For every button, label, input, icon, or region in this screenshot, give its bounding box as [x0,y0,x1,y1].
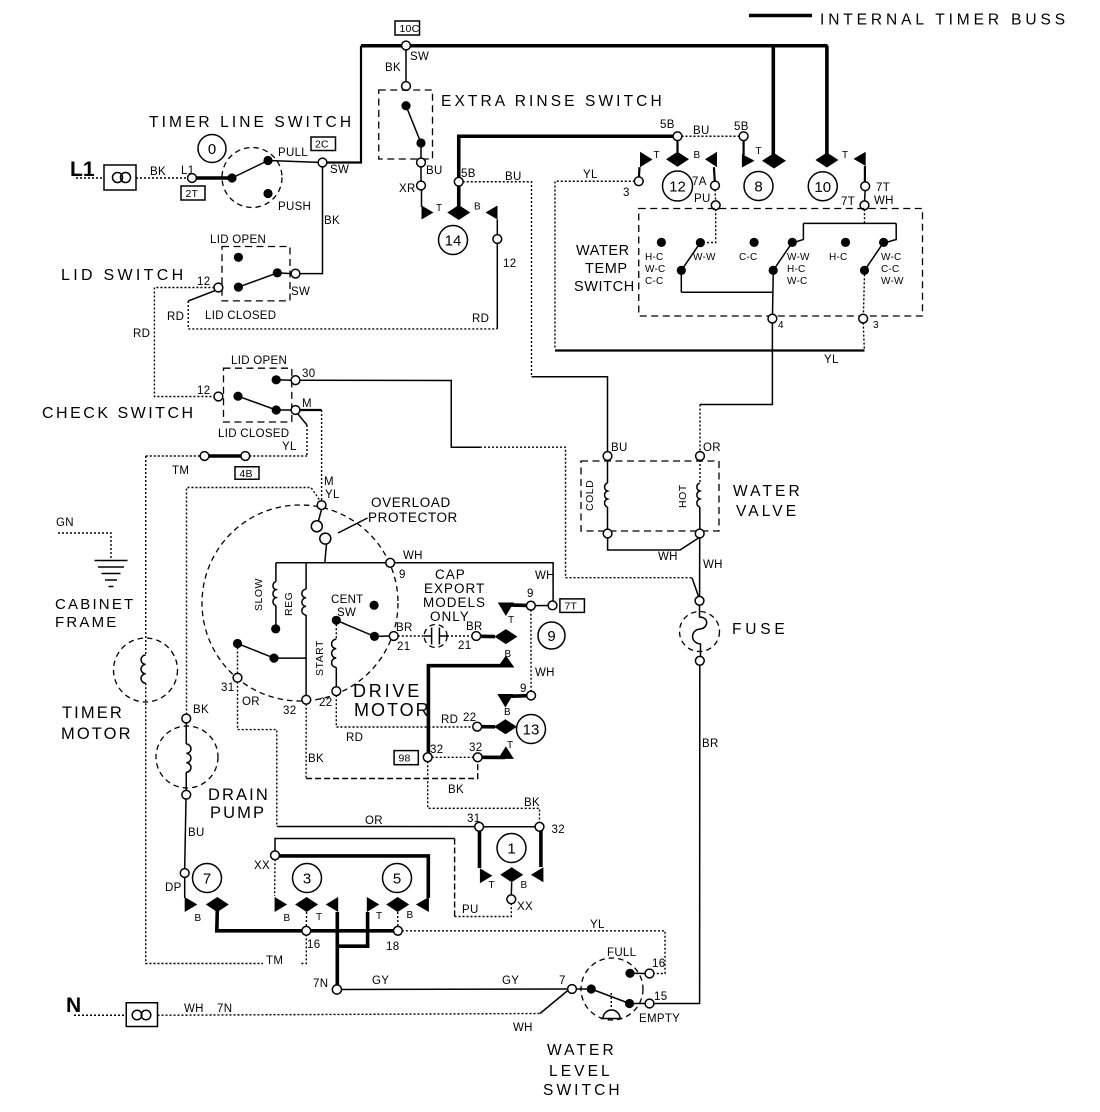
svg-text:C-C: C-C [881,264,899,275]
water valve dashed box [581,461,719,531]
svg-text:WH: WH [658,551,678,563]
svg-text:MOTOR: MOTOR [61,725,133,743]
svg-text:XX: XX [517,901,533,913]
svg-text:LID OPEN: LID OPEN [210,234,266,246]
svg-text:PUSH: PUSH [278,201,311,213]
contact 13 diamond [494,719,517,734]
node 30 [291,376,300,385]
svg-text:30: 30 [302,368,315,380]
svg-text:W-W: W-W [881,276,904,287]
svg-text:DRAIN: DRAIN [208,786,270,804]
timer motor dashed circle [114,638,178,702]
svg-text:TIMER: TIMER [62,704,124,722]
svg-text:3: 3 [873,320,879,331]
node 21 right [472,632,481,641]
svg-text:7T: 7T [876,182,890,194]
svg-text:OR: OR [703,442,721,454]
contact 1 T feed [478,831,482,868]
svg-text:4: 4 [778,320,784,331]
svg-text:T: T [508,615,514,626]
node: extra rinse input [402,82,411,91]
supply connector box L1 [104,165,136,190]
cent switch [370,601,379,610]
link 32 nodes [432,756,474,758]
circled 13 [517,715,546,744]
wire OR from node 4 to water valve hot [700,323,772,405]
circled 10 [808,172,837,201]
node 32 motor [302,695,311,704]
circled 8 [744,172,773,201]
node 15 [645,999,654,1008]
wire XX thick run to contact 5 B [279,856,428,898]
PULL contact [263,156,272,165]
node M [291,406,300,415]
wire [420,167,422,182]
node 5B left [673,132,682,141]
svg-text:7T: 7T [565,601,578,613]
svg-text:EXTRA RINSE SWITCH: EXTRA RINSE SWITCH [441,93,665,110]
contact 7 diamond [206,897,229,912]
contact 8 T triangle [742,154,755,168]
drive motor dashed circle [202,505,398,701]
wire WH bus to 7T [394,563,553,602]
svg-text:W-C: W-C [787,276,807,287]
svg-text:XR: XR [399,183,416,195]
wire RD lid to check switch [154,288,214,397]
svg-text:T: T [842,150,848,161]
terminal box 98 [394,751,418,765]
link node 9 to 7T [535,605,549,607]
contact 3 T drop to 7N [335,912,339,987]
svg-text:WATER: WATER [576,243,630,259]
overload protector pointer [338,518,368,533]
overload protector [319,509,322,521]
circled 9 [538,622,565,649]
contact 1 B triangle [531,867,544,882]
node XX right [507,895,516,904]
node 31 motor [233,673,242,682]
contact 9 T triangle [498,603,514,617]
contact 1 T triangle [480,868,493,883]
svg-text:12: 12 [669,179,686,196]
contact 1 diamond [500,867,523,882]
svg-text:BK: BK [193,704,209,716]
svg-text:GN: GN [56,517,74,529]
water level blade to empty [591,989,629,1004]
node drain pump bottom [182,790,191,799]
terminal box 2C [311,137,336,151]
water level switch dashed circle [581,958,643,1020]
contact 13 feed from 22 [481,725,495,729]
wire 30 to fuse area [300,380,481,447]
svg-text:CHECK SWITCH: CHECK SWITCH [42,405,196,422]
svg-text:SW: SW [330,164,349,176]
wire BU drain pump to DP [185,799,186,869]
node 9 motor [386,558,395,567]
svg-text:T: T [316,912,322,923]
svg-text:RD: RD [472,313,489,325]
wire node 3 to YL run [863,323,864,349]
svg-text:32: 32 [430,744,443,756]
wire PU XX run [455,903,512,916]
wire WH contact 9 down [530,610,532,692]
svg-text:16: 16 [652,958,665,970]
terminal box 2T [181,186,205,200]
svg-text:10C: 10C [400,23,420,35]
svg-text:WH: WH [535,667,555,679]
svg-text:3: 3 [303,871,311,888]
node SW lid switch [291,269,300,278]
svg-text:BK: BK [524,797,540,809]
svg-text:21: 21 [458,640,471,652]
svg-text:WH: WH [403,550,423,562]
svg-text:WH: WH [703,559,723,571]
svg-text:SW: SW [337,607,356,619]
svg-text:BK: BK [308,753,324,765]
svg-text:SWITCH: SWITCH [574,279,635,295]
svg-text:7: 7 [559,975,566,987]
svg-text:VALVE: VALVE [736,503,799,520]
svg-text:FUSE: FUSE [732,621,789,638]
node 22 motor [332,687,341,696]
svg-text:ONLY: ONLY [430,609,470,624]
svg-text:B: B [474,202,481,213]
wire contact 1 to XX [510,882,512,895]
svg-text:22: 22 [319,697,332,709]
timer motor coil [141,655,146,683]
contact 12 B triangle [705,152,717,167]
svg-text:BK: BK [448,784,464,796]
PUSH contact [263,189,272,198]
terminal box 4B [235,467,259,480]
svg-text:WH: WH [513,1022,533,1034]
contact 5 T drop [366,912,370,946]
node BU [417,158,426,167]
svg-text:SLOW: SLOW [253,578,265,611]
svg-text:RD: RD [346,732,363,744]
fuse element [693,605,707,657]
wire: SW riser from timer line switch to buss [323,46,362,163]
contact 9 B triangle [497,656,514,668]
node 7A [711,181,720,190]
wire WH hot to fuse [699,538,701,597]
svg-text:T: T [436,203,442,214]
svg-text:21: 21 [397,641,410,653]
wire blade 3 to node 3 [863,274,864,314]
svg-text:COLD: COLD [584,480,596,511]
supply connector box N [126,1003,157,1027]
contact 12 T triangle [640,152,653,167]
svg-text:0: 0 [208,141,216,158]
node 7 [568,985,577,994]
node 5B right [739,132,748,141]
svg-text:31: 31 [221,682,234,694]
svg-text:16: 16 [307,939,320,951]
svg-text:DP: DP [165,882,182,894]
node 32 [423,753,432,762]
wire: 5B dotted link [682,135,740,137]
wire start pivot to node 31 [237,648,239,674]
svg-text:2C: 2C [315,139,329,151]
wire: buss drop to timer contact 8 [771,46,775,155]
svg-text:RD: RD [167,311,184,323]
cold solenoid [607,460,609,483]
svg-text:BU: BU [505,171,522,183]
svg-text:10: 10 [814,179,831,196]
fuse dashed circle [680,612,720,652]
node 9 contact [527,601,536,610]
svg-text:WATER: WATER [547,1042,617,1059]
svg-text:OR: OR [242,696,260,708]
label TM bottom [263,953,300,967]
circled 0 [198,135,226,163]
svg-text:B: B [521,880,528,891]
check switch open contact [272,375,281,384]
wire WH diagonal to node 7 [540,990,569,1014]
svg-text:PROTECTOR: PROTECTOR [368,510,458,525]
svg-text:18: 18 [386,941,399,953]
timer line switch blade [232,161,268,179]
svg-text:12: 12 [503,258,516,270]
svg-text:2T: 2T [186,188,199,200]
lid switch open contact [234,253,243,262]
node 18 [394,926,403,935]
timer contact 14 B triangle [486,206,498,220]
timer contact 14 T triangle [422,206,434,220]
node OR water valve [696,452,705,461]
svg-text:HOT: HOT [677,484,689,508]
svg-text:BR: BR [466,621,483,633]
svg-text:5B: 5B [461,168,476,180]
contact 10 diamond [815,153,838,168]
drain pump coil [185,723,187,745]
contact 5 B triangle [416,897,429,912]
svg-text:OVERLOAD: OVERLOAD [371,495,451,510]
timer contact 14 feed from buss [459,136,676,216]
svg-text:GY: GY [372,975,389,987]
svg-text:TEMP: TEMP [585,261,628,277]
wire L1 lead [76,177,104,179]
water level common contact [576,988,587,990]
svg-text:OR: OR [365,815,383,827]
water temp blade 3 [865,242,884,270]
svg-text:32: 32 [283,705,296,717]
circled 1 [497,834,526,863]
svg-text:XX: XX [254,860,270,872]
svg-text:12: 12 [197,276,210,288]
circled 5 [383,864,412,893]
contact 7 thick feed to 16-18 [217,910,397,931]
check switch dashed box [224,368,292,422]
svg-text:MODELS: MODELS [423,595,486,610]
node BU water valve [603,452,612,461]
svg-text:PUMP: PUMP [210,804,266,822]
svg-text:T: T [507,740,513,751]
svg-text:CABINET: CABINET [55,596,135,613]
svg-text:C-C: C-C [645,276,663,287]
svg-text:T: T [756,146,762,157]
svg-text:7N: 7N [313,978,328,990]
svg-text:M: M [324,476,334,488]
node fuse top [695,596,704,605]
svg-text:15: 15 [654,991,667,1003]
contact 3 stem [305,912,307,927]
node 31 bottom [475,822,484,831]
svg-text:YL: YL [282,441,297,453]
contact 13 T thick stub [480,755,505,759]
wire DP to contact 7 [184,877,186,898]
svg-text:B: B [284,913,291,924]
svg-text:DRIVE: DRIVE [353,681,422,701]
timer line switch pivot [227,173,236,182]
contact 12 diamond [666,152,689,167]
node 12 check switch [214,392,223,401]
wire YL check switch M to drain pump [187,488,322,715]
node 7T motor [548,601,557,610]
contact 3 diamond [295,897,318,912]
svg-text:START: START [314,640,326,676]
wire [864,190,867,201]
svg-text:SW: SW [410,51,429,63]
wire TM row [146,455,201,457]
svg-text:9: 9 [520,683,527,695]
node 12 [493,235,502,244]
circled 7 [193,864,222,893]
svg-text:31: 31 [467,813,480,825]
svg-text:7: 7 [203,871,211,888]
contact 7 B triangle [185,897,198,912]
node L1 [188,174,197,183]
wire OR run [277,826,475,828]
contact 9 feed [480,634,495,638]
svg-text:BR: BR [396,622,413,634]
wire TM left drop to timer motor [145,456,147,655]
svg-text:M: M [302,398,312,410]
svg-text:WH: WH [184,1003,204,1015]
timer contact 14 diamond [447,205,470,220]
svg-text:B: B [504,707,511,718]
svg-text:CENT: CENT [331,594,364,606]
svg-text:7N: 7N [217,1003,232,1015]
svg-text:B: B [407,910,414,921]
legend: internal timer buss sample line [749,14,812,18]
wire BR fuse to water level empty [654,665,700,1004]
wire contact 12 T to node 3 [638,167,641,177]
wire PULL to SW node [268,161,323,163]
wire BK node 32 to node 32 bottom [428,761,540,823]
svg-text:WH: WH [874,195,894,207]
svg-text:H-C: H-C [787,264,805,275]
wire contact 10 B down [864,166,866,182]
svg-text:TM: TM [266,955,283,967]
node 7T [861,182,870,191]
svg-text:W-C: W-C [881,252,901,263]
svg-text:BK: BK [150,166,166,178]
svg-text:WATER: WATER [733,483,803,500]
svg-text:98: 98 [399,753,411,765]
svg-text:LID CLOSED: LID CLOSED [205,310,276,322]
lid switch blade [238,273,277,287]
drain pump dashed circle [156,726,218,788]
extra rinse switch dashed box [379,90,433,159]
svg-text:EMPTY: EMPTY [639,1013,680,1025]
node 3 [634,177,643,186]
svg-text:W-W: W-W [693,252,716,263]
svg-text:BU: BU [426,165,443,177]
wire M to TM row [298,414,308,426]
svg-text:5: 5 [393,871,401,888]
svg-text:SW: SW [291,286,310,298]
wire 12 from contact 14 B down [496,220,498,329]
wire BU from 5B to water valve cold [463,182,532,376]
svg-text:1: 1 [507,841,515,858]
contact 5 stem [397,912,399,927]
svg-text:W-W: W-W [787,252,810,263]
svg-text:REG: REG [283,592,295,616]
start switch blade motor [233,639,242,648]
wire motor top bus [276,562,386,564]
hot solenoid [699,460,701,483]
wire timer motor to TM bottom run [146,683,307,963]
svg-text:WH: WH [535,570,555,582]
svg-text:L1: L1 [70,158,95,181]
svg-text:9: 9 [527,588,534,600]
svg-text:CAP: CAP [435,567,466,582]
contact 9 diamond [494,629,517,644]
node 5B on feed [454,177,463,186]
contact 5 T triangle [367,897,380,912]
wire M stub [300,409,322,411]
svg-text:BU: BU [188,827,205,839]
svg-text:INTERNAL TIMER BUSS: INTERNAL TIMER BUSS [820,12,1069,29]
svg-text:N: N [66,994,81,1017]
svg-text:PU: PU [462,904,479,916]
contact 9 B thick wire to node 32 [428,666,508,755]
wire WH cold to hot common [608,537,700,550]
svg-text:YL: YL [583,169,598,181]
svg-text:14: 14 [445,233,462,250]
node DP [180,869,189,878]
node PU on water temp box [711,201,720,210]
node SW 2C [318,158,327,167]
node 32 right [473,753,482,762]
node fuse bottom [695,656,704,665]
svg-text:SWITCH: SWITCH [543,1082,623,1099]
wire to contact 14 T [421,190,423,208]
wire WH tee into switch [864,209,866,223]
wire 7A to PU node [714,190,717,202]
wire to switch pivot [196,176,232,180]
pressure dome [610,993,612,1009]
svg-text:8: 8 [754,179,762,196]
svg-text:RD: RD [441,714,458,726]
contact 12 feed [676,140,678,152]
node 32 bottom [535,822,544,831]
wire XX down to contact 3 B [274,859,276,896]
extra rinse switch blade [406,106,421,143]
contact 8 feed from 5B [742,140,744,155]
node XX left [271,851,280,860]
node 21 [389,632,398,641]
node 22 right [473,722,482,731]
wire YL from node 3 to water temp 3 [555,181,635,349]
node 4 [768,314,777,323]
svg-text:LID CLOSED: LID CLOSED [218,428,289,440]
svg-text:3: 3 [623,187,630,199]
svg-text:PU: PU [694,193,711,205]
svg-text:H-C: H-C [829,252,847,263]
svg-text:YL: YL [590,919,605,931]
